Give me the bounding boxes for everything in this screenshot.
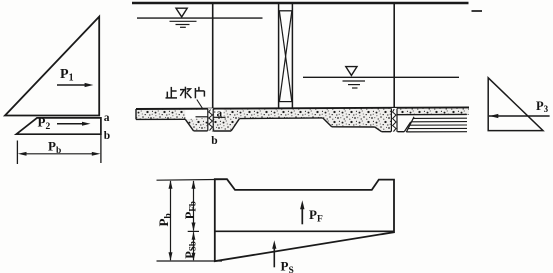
svg-text:PS: PS <box>281 259 294 273</box>
slab bottom edge segment 1 <box>136 118 185 120</box>
svg-text:Pb: Pb <box>48 139 61 156</box>
dimension bottom tick <box>157 260 223 262</box>
gate tower: right vertical <box>291 4 293 109</box>
joint block 1 bottom (left of strip) <box>194 130 208 132</box>
gate tower: diagonal brace 2 <box>279 11 291 101</box>
short dash right of top line <box>472 10 483 12</box>
water stop strip 1 (white gap) <box>208 108 213 131</box>
arrow PF <box>301 207 303 225</box>
leader line for water stop label <box>197 100 203 110</box>
label 止水片 : 片 <box>195 87 204 99</box>
downstream water surface symbol <box>346 67 357 76</box>
slab top edge <box>136 107 469 109</box>
svg-text:b: b <box>104 130 110 142</box>
water stop strip 1 left edge <box>207 109 209 131</box>
water stop strip 2 (white gap) <box>391 108 397 131</box>
arrow P2 <box>57 123 85 125</box>
upstream water line <box>137 17 263 19</box>
drainage layer line 3 <box>410 124 467 126</box>
drainage layer line 4 <box>408 127 467 129</box>
dimension Pb: right tick <box>100 134 102 163</box>
arrow PS <box>273 246 275 267</box>
floor slab concrete fill (stippled) <box>136 107 469 131</box>
joint block 2 bottom (left of strip) <box>382 131 391 133</box>
inner dimension line PFb <box>193 181 195 231</box>
dimension Pb: left tick <box>16 141 18 165</box>
svg-text:a: a <box>104 112 110 124</box>
slab band bottom right segment <box>397 113 467 115</box>
joint block 2 right slope <box>404 122 411 132</box>
svg-text:PFb: PFb <box>183 201 198 219</box>
downstream water dashes <box>343 80 366 82</box>
drainage layer left slant edge <box>406 117 414 132</box>
downstream water line <box>303 76 459 78</box>
joint block 2 bottom (right of strip) <box>397 131 404 133</box>
pier wall line (left) <box>212 4 214 132</box>
svg-text:Pb: Pb <box>156 213 173 226</box>
svg-text:P1: P1 <box>60 67 74 84</box>
top ground line of sluice section <box>132 2 469 4</box>
inner dimension line PSb <box>193 232 195 260</box>
slab bottom edge segment 3 <box>332 126 375 128</box>
joint interface line left of strip <box>196 116 208 118</box>
svg-text:b: b <box>211 135 217 147</box>
left pressure diagram: triangle P1 <box>5 17 99 116</box>
gate tower: left vertical <box>278 4 280 109</box>
dimension top tick <box>157 178 227 181</box>
pier wall line (right) <box>393 4 395 132</box>
node a tick (middle diagram) <box>213 116 225 118</box>
water stop strip 1 zigzag <box>209 110 213 131</box>
node a (middle diagram) <box>215 110 224 117</box>
drainage layer line 1 <box>413 117 467 119</box>
uplift pressure diagram outline <box>215 179 394 261</box>
water stop strip 1 right edge <box>212 109 214 131</box>
svg-text:P3: P3 <box>536 99 549 114</box>
svg-text:PSb: PSb <box>183 241 198 259</box>
dimension Pb: line with arrows <box>21 153 97 155</box>
svg-text:a: a <box>217 108 223 120</box>
water stop strip 2 zigzag <box>393 109 396 132</box>
uplift diagram mid separation line <box>215 230 394 232</box>
drainage layer line 2 <box>412 121 468 123</box>
gate tower: top cap <box>279 10 293 12</box>
label 止水片 : 水 <box>180 87 191 99</box>
slab step down <box>323 118 332 127</box>
slab bottom edge segment 2 <box>239 117 322 120</box>
gate tower: bottom cap <box>279 101 292 103</box>
arrow line P3 <box>489 115 550 117</box>
svg-text:PF: PF <box>309 207 323 224</box>
joint block 1 left slope <box>185 119 193 131</box>
upstream water dashes <box>170 20 197 22</box>
parallelogram P2 <box>16 118 101 134</box>
label 止水片 (water stop) : 止 <box>166 87 178 98</box>
drainage layer bottom line <box>406 131 467 133</box>
water stop strip 2 right edge <box>396 109 398 132</box>
outer dimension line Pb <box>170 181 172 260</box>
right pressure diagram: triangle P3 <box>488 78 543 131</box>
mid tick between PFb and PSb <box>188 230 199 232</box>
gate tower: diagonal brace 1 <box>279 11 291 101</box>
joint block 1 right slope <box>231 119 239 131</box>
arrow P1 <box>57 84 87 86</box>
water stop strip 2 left edge <box>390 109 392 132</box>
joint block 2 left slope <box>375 127 382 132</box>
slab left end edge <box>135 109 137 119</box>
joint block 1 bottom (right of strip) <box>214 130 232 132</box>
upstream water surface symbol <box>176 8 187 17</box>
